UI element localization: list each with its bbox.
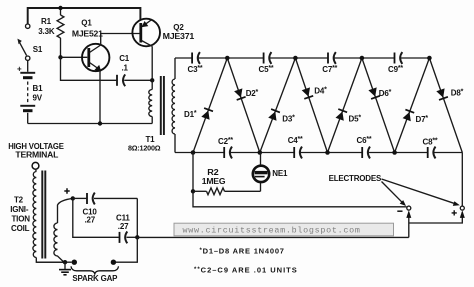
svg-text:8Ω:1200Ω: 8Ω:1200Ω <box>128 144 161 153</box>
wire Q1 collector to Q2 base <box>101 34 140 46</box>
node bottom 4 <box>392 150 397 155</box>
wire return line <box>137 236 409 238</box>
svg-text:D1*: D1* <box>184 110 197 119</box>
wire base of Q1 <box>61 56 88 58</box>
switch S1 <box>17 24 43 60</box>
diode D6 <box>362 58 395 153</box>
svg-text:MJE521: MJE521 <box>72 30 104 39</box>
node C11 junction <box>135 235 139 239</box>
svg-text:.1: .1 <box>122 63 129 72</box>
plus sign at T2 secondary <box>64 188 69 193</box>
resistor R1 3.3K <box>38 8 64 57</box>
label T2 ignition coil <box>10 195 30 233</box>
svg-text:D6*: D6* <box>379 89 392 98</box>
capacitor C4 <box>288 136 303 158</box>
node R2 junction <box>191 189 195 193</box>
svg-text:C1: C1 <box>119 54 130 63</box>
transistor Q1 MJE521 <box>72 19 110 72</box>
capacitor C10 .27 <box>73 193 138 225</box>
capacitor C11 .27 <box>73 198 138 243</box>
diode D1 <box>184 58 227 153</box>
capacitor C3 <box>188 52 203 74</box>
node bottom 2 <box>258 150 263 155</box>
svg-text:TION: TION <box>12 214 31 223</box>
wire Q1 emitter down <box>99 71 101 124</box>
svg-text:T2: T2 <box>14 195 24 204</box>
wire bottom rail of oscillator <box>28 123 153 125</box>
node top 1 <box>225 56 230 61</box>
capacitor C2 <box>218 137 233 158</box>
svg-text:SPARK GAP: SPARK GAP <box>72 274 118 283</box>
svg-text:C4**: C4** <box>288 136 303 145</box>
transformer T2 primary <box>33 169 65 262</box>
node R1 / Q1 base / C1 <box>58 55 62 59</box>
capacitor C7 <box>322 52 337 74</box>
watermark bar <box>174 223 394 236</box>
capacitor C9 <box>388 52 403 74</box>
transformer T1 primary <box>149 80 152 123</box>
svg-text:1MEG: 1MEG <box>202 177 226 186</box>
high voltage terminal <box>8 142 64 169</box>
wire branch to + electrode with arrow <box>409 210 465 223</box>
wire ladder top rail <box>175 57 429 59</box>
svg-text:Q2: Q2 <box>173 23 184 32</box>
spark gap left ball <box>72 260 77 265</box>
wire spark gap riser <box>116 237 137 262</box>
battery B1 9V <box>17 65 43 124</box>
node bottom 3 <box>325 150 330 155</box>
svg-text:Q1: Q1 <box>81 19 92 28</box>
wire left ball to junction <box>36 261 71 263</box>
node top rail / R1 <box>58 6 62 10</box>
svg-text:C8**: C8** <box>423 138 438 147</box>
svg-text:C2**: C2** <box>218 137 233 146</box>
wire R2 node to - electrode <box>193 191 407 207</box>
wire Q2 collector down to C1/T1 node <box>151 46 153 80</box>
capacitor C6 <box>357 136 372 158</box>
wire ladder bottom rail <box>175 152 462 154</box>
wire return line to - electrode with arrow <box>406 210 411 237</box>
node top 4 <box>427 56 432 61</box>
node top 3 <box>360 56 365 61</box>
spark gap right ball <box>111 260 116 265</box>
electrode + <box>452 206 465 215</box>
node + junction <box>71 196 75 200</box>
svg-text:C3**: C3** <box>188 65 203 74</box>
svg-text:D3*: D3* <box>282 114 295 123</box>
wire C10 corner down <box>136 198 138 237</box>
svg-text:**C2–C9 ARE .01 UNITS: **C2–C9 ARE .01 UNITS <box>194 266 298 275</box>
svg-text:R1: R1 <box>41 17 52 26</box>
svg-text:+: + <box>17 65 22 74</box>
node top 2 <box>293 56 298 61</box>
diode D3 <box>260 58 296 153</box>
svg-text:D5*: D5* <box>349 114 362 123</box>
electrode - <box>397 206 411 211</box>
label SPARK GAP with brace <box>71 266 119 283</box>
transformer T1 secondary <box>128 58 175 153</box>
node Q1 emitter / bottom rail <box>98 121 102 125</box>
svg-text:C5**: C5** <box>259 65 274 74</box>
wire top rail <box>28 8 141 24</box>
wire node1 down <box>192 153 194 192</box>
svg-text:D8*: D8* <box>451 89 464 98</box>
svg-text:ELECTRODES: ELECTRODES <box>329 174 382 183</box>
capacitor C8 <box>423 138 438 159</box>
neon lamp NE1 <box>253 153 288 192</box>
wire right rail to + electrode <box>461 153 463 207</box>
svg-text:NE1: NE1 <box>272 169 288 178</box>
label ELECTRODES with leader arrows <box>329 174 460 206</box>
svg-text:D4*: D4* <box>314 87 327 96</box>
capacitor C1 .1 <box>61 54 153 86</box>
node ground junction <box>63 260 67 264</box>
transformer T1 core <box>160 76 162 135</box>
svg-text:COIL: COIL <box>11 224 30 233</box>
svg-text:C7**: C7** <box>322 65 337 74</box>
node C1 / Q2 collector / T1 <box>150 78 154 82</box>
transistor Q2 MJE371 <box>132 19 195 47</box>
svg-text:R2: R2 <box>207 168 219 177</box>
svg-text:3.3K: 3.3K <box>38 27 55 36</box>
diode D7 <box>395 58 430 153</box>
svg-text:MJE371: MJE371 <box>163 32 195 41</box>
svg-text:T1: T1 <box>146 135 156 144</box>
diode D8 <box>429 58 463 153</box>
node bottom 1 <box>191 150 196 155</box>
capacitor C5 <box>259 52 274 74</box>
wire switch to battery <box>27 60 29 71</box>
svg-text:www.circuitsstream.blogspot.co: www.circuitsstream.blogspot.com <box>183 226 361 236</box>
svg-text:S1: S1 <box>33 45 43 54</box>
svg-text:B1: B1 <box>33 84 44 93</box>
diode D4 <box>295 58 327 153</box>
transformer T2 secondary <box>54 198 73 261</box>
svg-text:C6**: C6** <box>357 136 372 145</box>
svg-text:IGNI-: IGNI- <box>10 205 29 214</box>
svg-text:D7*: D7* <box>416 115 429 124</box>
svg-text:C9**: C9** <box>388 65 403 74</box>
diode D2 <box>227 58 259 153</box>
svg-text:TERMINAL: TERMINAL <box>15 151 58 160</box>
svg-text:.27: .27 <box>85 216 96 225</box>
svg-text:.27: .27 <box>118 222 129 231</box>
ground <box>59 262 71 275</box>
transformer T2 core <box>41 171 43 259</box>
svg-text:9V: 9V <box>33 93 43 102</box>
svg-text:*D1–D8 ARE 1N4007: *D1–D8 ARE 1N4007 <box>200 246 285 255</box>
resistor R2 1MEG <box>193 168 261 195</box>
diode D5 <box>328 58 362 153</box>
svg-text:D2*: D2* <box>246 89 259 98</box>
